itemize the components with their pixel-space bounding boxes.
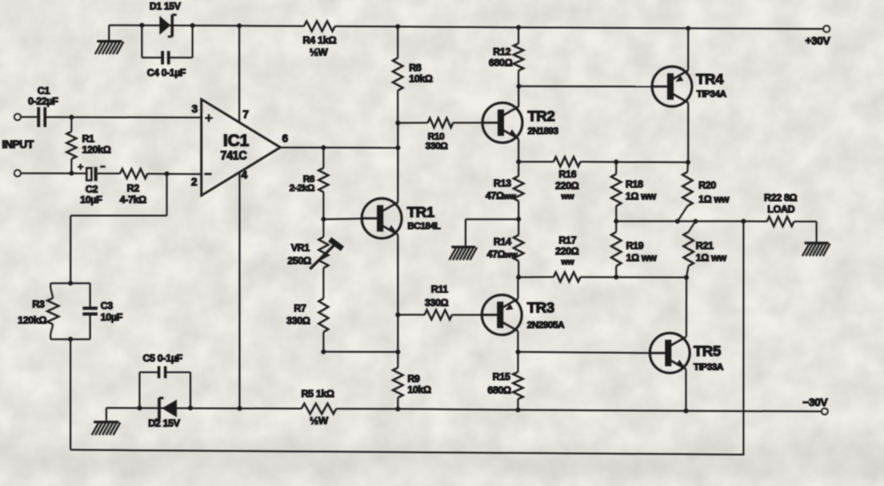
svg-text:10kΩ: 10kΩ (408, 385, 432, 396)
svg-text:IC1: IC1 (223, 131, 249, 150)
svg-text:½W: ½W (310, 415, 328, 427)
svg-text:C1: C1 (37, 86, 50, 97)
svg-text:D2 15V: D2 15V (148, 419, 180, 430)
svg-text:R5 1kΩ: R5 1kΩ (301, 389, 334, 400)
svg-text:1Ω ww: 1Ω ww (626, 192, 657, 203)
svg-text:VR1: VR1 (291, 243, 310, 254)
svg-text:BC184L: BC184L (408, 221, 441, 232)
svg-text:TIP34A: TIP34A (697, 89, 727, 100)
svg-text:680Ω: 680Ω (487, 385, 511, 396)
svg-text:2N2905A: 2N2905A (527, 320, 565, 331)
svg-text:R12: R12 (493, 47, 511, 58)
svg-text:½W: ½W (309, 46, 327, 58)
svg-text:ww: ww (560, 191, 574, 201)
svg-text:R16: R16 (559, 169, 577, 180)
svg-text:D1 15V: D1 15V (150, 1, 182, 12)
svg-text:R20: R20 (699, 180, 717, 191)
svg-text:−30V: −30V (803, 397, 829, 409)
svg-text:1Ω ww: 1Ω ww (696, 253, 727, 264)
svg-text:R2: R2 (127, 184, 140, 195)
svg-text:TR4: TR4 (696, 71, 724, 88)
svg-text:680Ω: 680Ω (489, 58, 513, 69)
svg-text:TR5: TR5 (694, 343, 721, 360)
svg-text:R11: R11 (431, 284, 449, 295)
svg-text:10µF: 10µF (80, 195, 102, 206)
svg-text:R4 1kΩ: R4 1kΩ (303, 35, 337, 46)
svg-text:INPUT: INPUT (2, 139, 34, 151)
svg-text:4-7kΩ: 4-7kΩ (120, 195, 147, 206)
svg-text:0-22µF: 0-22µF (28, 96, 58, 107)
svg-text:R13: R13 (494, 179, 512, 190)
svg-text:330Ω: 330Ω (425, 141, 448, 152)
svg-text:R19: R19 (626, 241, 644, 252)
svg-text:+30V: +30V (805, 35, 831, 47)
svg-text:47Ωww: 47Ωww (485, 191, 516, 202)
svg-text:R15: R15 (493, 372, 511, 383)
svg-text:R14: R14 (494, 237, 512, 248)
svg-text:250Ω: 250Ω (287, 256, 311, 267)
svg-text:1Ω ww: 1Ω ww (626, 253, 657, 264)
svg-text:R3: R3 (32, 299, 45, 310)
svg-text:120kΩ: 120kΩ (18, 316, 47, 327)
svg-text:1Ω ww: 1Ω ww (699, 194, 730, 205)
svg-text:7: 7 (243, 109, 249, 121)
svg-text:330Ω: 330Ω (286, 316, 310, 327)
svg-text:3: 3 (192, 103, 198, 115)
svg-text:TIP33A: TIP33A (694, 362, 724, 373)
svg-text:R9: R9 (408, 374, 421, 385)
svg-text:R22 8Ω: R22 8Ω (764, 193, 797, 204)
svg-text:330Ω: 330Ω (425, 298, 449, 309)
svg-text:R7: R7 (294, 303, 307, 314)
svg-text:120kΩ: 120kΩ (82, 145, 111, 156)
svg-text:ww: ww (560, 256, 574, 266)
svg-text:R21: R21 (696, 241, 714, 252)
svg-text:R8: R8 (409, 63, 422, 74)
svg-text:LOAD: LOAD (767, 204, 794, 215)
svg-text:741C: 741C (220, 150, 246, 162)
svg-text:2-2kΩ: 2-2kΩ (289, 183, 315, 194)
svg-text:10kΩ: 10kΩ (409, 74, 433, 85)
svg-text:C3: C3 (101, 301, 114, 312)
svg-text:2N1893: 2N1893 (528, 126, 559, 137)
svg-text:R17: R17 (559, 235, 577, 246)
svg-text:R1: R1 (82, 134, 95, 145)
svg-text:10µF: 10µF (101, 313, 123, 324)
svg-text:TR1: TR1 (407, 204, 434, 221)
svg-text:R18: R18 (626, 180, 644, 191)
svg-text:2: 2 (191, 176, 197, 188)
svg-text:C4 0-1µF: C4 0-1µF (147, 68, 186, 79)
svg-text:C2: C2 (85, 184, 98, 195)
svg-text:47Ωww: 47Ωww (487, 249, 518, 260)
svg-text:TR3: TR3 (527, 300, 554, 317)
svg-text:C5 0-1µF: C5 0-1µF (143, 354, 183, 365)
svg-text:TR2: TR2 (528, 108, 555, 125)
svg-text:6: 6 (282, 133, 288, 145)
